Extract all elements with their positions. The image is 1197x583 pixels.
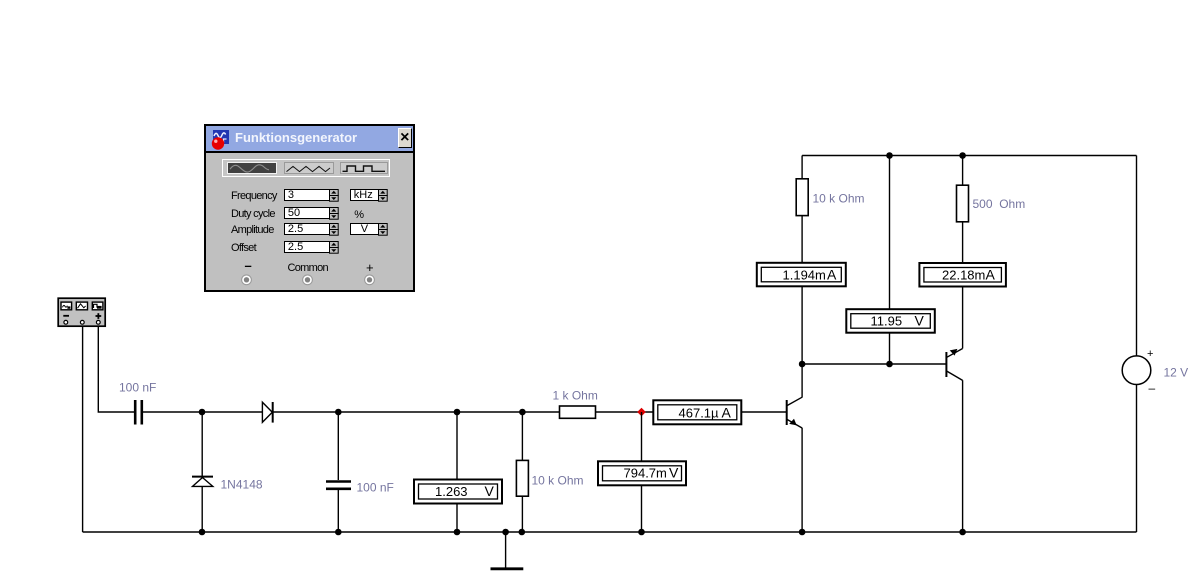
svg-text:V: V — [669, 465, 679, 481]
ammeter M2 467.1u A — [653, 400, 741, 424]
wire: R4 down to ammeter M6 — [962, 222, 964, 263]
wire: R3 up to top rail corner — [801, 156, 803, 179]
resistor R4 500 Ohm (vertical) — [957, 185, 969, 222]
wire: node C down to voltmeter M1 — [456, 412, 458, 480]
resistor R1 1 k Ohm (horizontal) — [560, 406, 596, 418]
duty cycle row — [231, 208, 275, 220]
value label 10 k Ohm (R3) — [813, 192, 865, 206]
wire: node D down to resistor R2 — [521, 412, 523, 460]
resistor R2 10 k Ohm (vertical) — [516, 460, 528, 496]
wire: C1 to diode D1 (through node A) — [143, 411, 262, 413]
wire: node F up to ammeter M4 — [801, 287, 803, 365]
diode D2 1N4148 (vertical, cathode up) — [192, 477, 213, 487]
wire: generator plus terminal down and right to C1 — [98, 327, 134, 412]
close button — [398, 128, 412, 148]
svg-text:–: – — [1149, 381, 1156, 395]
wire: top rail right corner down to source V1 — [1136, 156, 1138, 356]
terminal posts — [206, 272, 413, 292]
function generator instrument XFG1 (icon) — [58, 298, 105, 326]
junction dot at C2/ground rail — [335, 529, 342, 536]
svg-text:V: V — [485, 483, 495, 499]
wire: M5 down to node H — [889, 333, 891, 364]
node A junction dot — [199, 409, 206, 416]
wire: node F to Q2 base — [802, 363, 946, 365]
node I junction dot (500 Ohm branch, top rail) — [959, 152, 966, 159]
svg-text:100 nF: 100 nF — [357, 481, 394, 495]
dialog icon — [210, 129, 234, 151]
wire: node E down to voltmeter M3 — [641, 412, 643, 461]
wire: M1 to ground rail — [456, 504, 458, 533]
junction dot at M1/ground rail — [454, 529, 461, 536]
value label 1 k Ohm (R1) — [553, 389, 598, 403]
terminal labels — [245, 258, 252, 273]
value label 10 k Ohm (R2) — [532, 474, 584, 488]
value label 500 Ohm (R4) — [973, 197, 1026, 211]
node B junction dot (C2 branch) — [335, 409, 342, 416]
svg-text:1 k Ohm: 1 k Ohm — [553, 389, 598, 403]
capacitor C1 100 nF (horizontal) — [135, 400, 142, 425]
value label 100 nF (C2) — [357, 481, 394, 495]
wire: node G down to voltmeter M5 — [889, 156, 891, 310]
triangle button — [284, 162, 334, 174]
svg-text:10 k Ohm: 10 k Ohm — [532, 474, 584, 488]
node G junction dot (11.95V meter branch) — [886, 152, 893, 159]
svg-text:A: A — [827, 267, 837, 283]
wire: node A down to diode D2 — [201, 412, 203, 476]
ammeter M4 1.194m A — [757, 263, 846, 287]
voltage source V1 12 V — [1122, 348, 1155, 395]
junction dot at Q1 emitter/ground rail — [799, 529, 806, 536]
node C junction dot (voltmeter M1 branch) — [454, 409, 461, 416]
transistor Q2 (NPN, emitter up) — [946, 349, 962, 381]
svg-text:100 nF: 100 nF — [119, 381, 156, 395]
svg-text:467.1µ: 467.1µ — [679, 405, 720, 420]
diode D1 (horizontal, cathode right) — [262, 402, 272, 423]
resistor R3 10 k Ohm (vertical) — [796, 179, 808, 216]
svg-text:+: + — [1147, 348, 1153, 360]
node D junction dot (R2 branch) — [519, 409, 526, 416]
wire: node I down to resistor R4 — [962, 156, 964, 186]
node E (red junction dot) — [637, 408, 646, 416]
svg-text:22.18m: 22.18m — [942, 268, 985, 283]
voltmeter M5 11.95 V — [846, 309, 935, 333]
ammeter M6 22.18m A — [919, 263, 1006, 287]
wire: generator common terminal down to ground rail — [82, 327, 84, 532]
dialog title bar — [206, 126, 413, 153]
svg-text:A: A — [986, 267, 996, 283]
capacitor C2 100 nF (vertical) — [326, 482, 351, 489]
wire: R1 to ammeter M2 (through red node E) — [596, 411, 654, 413]
dialog title text — [235, 130, 357, 145]
function generator panel (Funktionsgenerator dialog) — [204, 124, 415, 292]
junction dot at M3/ground rail — [638, 529, 645, 536]
svg-text:A: A — [722, 404, 732, 420]
voltmeter M3 794.7m V — [598, 461, 686, 485]
voltmeter M1 1.263 V — [414, 480, 502, 504]
wire: top supply rail — [802, 155, 1136, 157]
svg-text:11.95: 11.95 — [871, 314, 903, 329]
wire: M3 to ground rail — [641, 485, 643, 532]
node F junction dot — [799, 361, 806, 368]
wire: ammeter M4 up to resistor R3 — [801, 216, 803, 263]
wire: node B down to capacitor C2 — [337, 412, 339, 480]
transistor Q1 (NPN) — [787, 397, 802, 428]
svg-text:1.263: 1.263 — [435, 484, 468, 499]
svg-text:1N4148: 1N4148 — [221, 478, 263, 492]
wire: Q2 collector down to ground rail — [962, 380, 964, 532]
wire: D2 to ground rail — [201, 486, 203, 532]
junction dot at D2/ground rail — [199, 529, 206, 536]
value label 1N4148 — [221, 478, 263, 492]
svg-text:500 Ohm: 500 Ohm — [973, 197, 1026, 211]
svg-text:1.194m: 1.194m — [783, 268, 826, 283]
wire: ammeter M2 to Q1 base — [741, 411, 786, 413]
node H junction dot — [886, 361, 893, 368]
wire: C2 to ground rail — [337, 490, 339, 532]
value label 12 V — [1164, 366, 1189, 380]
wire: ammeter M6 down to Q2 emitter — [962, 287, 964, 349]
offset row — [231, 242, 256, 254]
wire: Q1 collector up to node F — [801, 364, 803, 398]
wire: source V1 down to ground rail corner — [1136, 385, 1138, 533]
amplitude row — [231, 224, 274, 236]
junction dot ground stem — [502, 529, 509, 536]
svg-text:10 k Ohm: 10 k Ohm — [813, 192, 865, 206]
wire: Q1 emitter down to ground rail — [801, 428, 803, 532]
junction dot at R2/ground rail — [519, 529, 526, 536]
value label 100 nF (C1) — [119, 381, 156, 395]
ground — [491, 532, 524, 569]
frequency row — [231, 190, 277, 202]
waveform selector panel — [222, 159, 390, 177]
svg-text:12 V: 12 V — [1164, 366, 1189, 380]
wire: R2 to ground rail — [521, 496, 523, 532]
svg-text:V: V — [915, 313, 925, 329]
svg-text:794.7m: 794.7m — [624, 466, 667, 481]
square button — [340, 162, 388, 174]
wire: D1 to 1 k Ohm resistor R1 (through nodes B,C,D) — [273, 411, 560, 413]
junction dot at Q2 collector/ground rail — [959, 529, 966, 536]
wire: bottom ground rail — [83, 531, 1137, 533]
sine button (pressed) — [227, 162, 277, 175]
